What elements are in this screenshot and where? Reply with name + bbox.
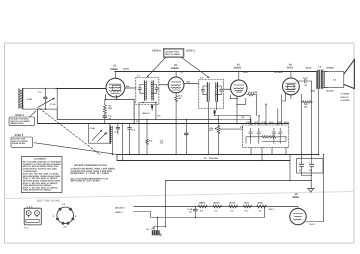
- wire V2 plate to T2: [184, 83, 199, 85]
- couplate internal resistor r8: [262, 136, 269, 138]
- wire AC return long: [165, 180, 311, 182]
- AC plug: [152, 231, 161, 236]
- tube V1 12BE6 converter: [106, 72, 125, 98]
- switch S-1: [152, 227, 155, 229]
- svg-text:GREEN: GREEN: [327, 67, 335, 70]
- svg-text:C-1B: C-1B: [90, 127, 95, 130]
- svg-text:B + 105-125V.: B + 105-125V.: [204, 157, 219, 160]
- wire V4 plate short: [291, 81, 299, 99]
- svg-text:35W4: 35W4: [257, 202, 263, 205]
- wire T2 to V3: [224, 88, 231, 90]
- junction dots couplate inputs on chassis bus: [250, 123, 251, 124]
- wire volume tap to couplate: [218, 119, 251, 121]
- wire T1 bottom internal: [140, 102, 157, 104]
- ground chassis symbol: [307, 189, 314, 193]
- couplate internal capacitor c11: [257, 128, 261, 143]
- coil T2 secondary: [215, 83, 217, 102]
- svg-text:12AV6: 12AV6: [229, 202, 236, 205]
- svg-text:STEP 3: STEP 3: [152, 49, 161, 52]
- alignment instruction box: [22, 157, 63, 193]
- svg-text:50C5: 50C5: [244, 202, 250, 205]
- svg-text:12BA6: 12BA6: [213, 202, 220, 205]
- wire T2 secondary down to volume: [215, 102, 217, 111]
- variable capacitor C-1A arrow: [38, 98, 56, 108]
- svg-text:WITH LINE AT 117V. AC/DC.: WITH LINE AT 117V. AC/DC.: [71, 180, 101, 183]
- svg-text:117 V.: 117 V.: [310, 223, 316, 226]
- tube V5 35W4 rectifier: [290, 207, 306, 225]
- capacitor C-6 screen bypass: [160, 119, 188, 155]
- notes unless otherwise noted: [71, 164, 116, 183]
- pointer line to bus: [34, 143, 117, 155]
- wire heater return: [151, 207, 265, 218]
- svg-text:GANG OPEN.: GANG OPEN.: [12, 142, 26, 145]
- heater resistor 12BA6: [213, 202, 222, 213]
- coil T1 secondary: [151, 81, 153, 100]
- svg-text:BLACK: BLACK: [327, 90, 335, 93]
- capacitor C-20A: [299, 159, 304, 173]
- wire filter caps to bus dots: [302, 155, 312, 159]
- wire osc cathode vertical: [122, 124, 124, 161]
- couplate internal capacitor c13: [278, 128, 282, 143]
- svg-text:A-201: A-201: [27, 98, 34, 101]
- svg-text:BLUE: BLUE: [306, 67, 312, 70]
- capacitor C-3: [115, 123, 120, 134]
- capacitor T2 secondary: [220, 86, 223, 95]
- wire grid bus loop to V1: [57, 88, 106, 90]
- wire T2 primary down: [207, 102, 209, 155]
- IF transformer T2 dashed box: [199, 80, 224, 109]
- capacitor T2 primary: [201, 86, 204, 95]
- wire bus left hook: [116, 155, 118, 161]
- svg-text:50C5: 50C5: [287, 67, 294, 70]
- note box step 4: [9, 117, 35, 126]
- T1 slug screw: [151, 105, 153, 109]
- heater resistor 50C5: [243, 202, 251, 213]
- resistor R-9: [301, 101, 313, 109]
- svg-text:12BA6: 12BA6: [171, 67, 179, 70]
- wire V5 output to filter: [306, 155, 324, 222]
- svg-text:RED: RED: [311, 90, 316, 93]
- wire AVC stub: [57, 119, 218, 121]
- svg-text:1 ▲ 2: 1 ▲ 2: [27, 205, 33, 208]
- IF transformer T1 dashed box: [136, 78, 159, 105]
- volume control R-3: [209, 119, 219, 155]
- voice coil loop: [324, 72, 343, 88]
- variable capacitor C-1B arrow: [90, 127, 103, 140]
- wire AC neutral: [134, 212, 151, 217]
- heater resistor 35W4: [257, 202, 267, 213]
- wire T3 primary red down: [318, 89, 320, 155]
- svg-text:TO RECEIVER.: TO RECEIVER.: [23, 170, 38, 173]
- wire under V1: [105, 95, 134, 124]
- capacitor C-14: [299, 77, 312, 87]
- wire AC bus lower: [117, 160, 290, 162]
- couplate internal resistor r12: [270, 136, 277, 138]
- svg-text:BOTTOM VIEWS: BOTTOM VIEWS: [37, 200, 60, 203]
- pointer to T1 slug: [147, 58, 166, 78]
- couplate internal capacitor c12: [272, 128, 276, 143]
- svg-text:MAX AT 455KC: MAX AT 455KC: [165, 53, 180, 56]
- svg-text:35W4: 35W4: [292, 196, 299, 199]
- wire osc coil to bus: [111, 144, 113, 155]
- wire couplate inputs: [251, 95, 282, 126]
- wire loop bottom to chassis bus: [37, 109, 39, 123]
- output transformer T3: [317, 66, 323, 89]
- svg-text:105-125 V.: 105-125 V.: [115, 206, 125, 209]
- wire V1 plate to T1: [125, 87, 136, 89]
- couplate internal capacitor c10: [249, 128, 253, 143]
- oscillator coil L-2: [104, 126, 112, 144]
- resistor R-4 AVC decoupling: [146, 119, 153, 155]
- heater resistor 12AV6: [229, 202, 238, 213]
- wire couplate outputs: [251, 147, 286, 160]
- wire B+ top bus: [115, 71, 317, 73]
- wire T3 secondary to voice coil: [323, 72, 328, 88]
- couplate PEC dashed box: [242, 125, 288, 147]
- note box step 1-3: [163, 48, 184, 57]
- filter capacitor can C-20: [297, 159, 324, 174]
- dashed gang linkage line: [40, 109, 101, 155]
- wire volume wiper to couplate: [220, 128, 243, 130]
- pointer to T2 slug: [182, 58, 210, 78]
- svg-text:4" SPKR: 4" SPKR: [341, 93, 350, 96]
- svg-text:ALIGNMENT: ALIGNMENT: [34, 158, 47, 161]
- capacitor T1 primary: [138, 85, 141, 94]
- resistor R-5 cathode: [175, 93, 183, 155]
- wire V4 cathode down: [301, 94, 303, 155]
- svg-text:3.2Ω VC: 3.2Ω VC: [341, 96, 349, 99]
- svg-text:USING LOOP.: USING LOOP.: [10, 122, 24, 125]
- svg-text:RESISTORS - K = 1000 , M = 1 M: RESISTORS - K = 1000 , M = 1 MEG.: [71, 172, 110, 175]
- resistor R-1: [103, 100, 112, 116]
- svg-text:121 V.: 121 V.: [269, 208, 275, 211]
- wire V3 cathode loop: [230, 95, 246, 124]
- wire T1 internals: [140, 85, 157, 94]
- note box step 2: [11, 137, 33, 147]
- tube V2 12BA6 IF amp: [168, 71, 184, 93]
- coil T1 primary: [145, 81, 147, 100]
- wire screen line down: [311, 81, 313, 155]
- svg-text:DET.: DET.: [244, 71, 249, 74]
- wire T1 leads down: [139, 103, 156, 155]
- couplate component labels: [246, 121, 289, 124]
- tube V3 12AV6 det-af: [231, 71, 247, 97]
- svg-text:12AV6: 12AV6: [233, 67, 241, 70]
- wire B plus lower bus: [117, 154, 319, 156]
- svg-text:STEP 1: STEP 1: [186, 49, 195, 52]
- variable capacitor C-1C arrow: [98, 132, 107, 141]
- wire AC hot: [134, 206, 298, 208]
- svg-text:455 KC: 455 KC: [143, 112, 151, 115]
- oscillator section box: [89, 124, 110, 144]
- capacitor C-4: [128, 124, 136, 156]
- loop enclosure box: [23, 89, 57, 110]
- loop antenna L1: [19, 89, 23, 109]
- svg-text:12BE6: 12BE6: [199, 202, 206, 205]
- border frame: [5, 43, 355, 243]
- svg-text:12BE6: 12BE6: [110, 68, 118, 71]
- svg-text:STEP 4: STEP 4: [15, 114, 24, 117]
- svg-text:I.F.: I.F.: [181, 71, 184, 74]
- node dots loop: [45, 88, 46, 89]
- svg-text:OUTPUT: OUTPUT: [275, 71, 284, 74]
- pointer line step4 to trimmer: [30, 111, 36, 117]
- capacitor T1 secondary: [155, 85, 158, 94]
- loop base bottom view: [24, 205, 41, 229]
- tube socket bottom view: [53, 203, 77, 228]
- svg-text:UNLESS OTHERWISE NOTED:: UNLESS OTHERWISE NOTED:: [74, 164, 107, 167]
- speaker labels: [341, 93, 350, 103]
- svg-text:TUNE RECEIVER TO SIGNAL.: TUNE RECEIVER TO SIGNAL.: [23, 189, 53, 192]
- heater resistor 12BE6: [198, 202, 207, 213]
- wire V3 detector load: [237, 95, 257, 124]
- couplate internal wires: [246, 137, 287, 144]
- svg-text:R-6 470K: R-6 470K: [249, 91, 258, 94]
- tube V4 50C5 output: [283, 71, 300, 95]
- capacitor C-20B: [309, 159, 314, 173]
- wire output stage stubs: [282, 93, 286, 124]
- wire cap negatives to ground: [302, 172, 312, 189]
- svg-text:C-1A: C-1A: [51, 103, 56, 106]
- wire loop right down: [56, 109, 58, 119]
- wire switch riser: [289, 155, 291, 181]
- wire AC riser: [164, 181, 166, 227]
- coil T2 primary: [207, 83, 209, 102]
- wire T1 to V2: [159, 84, 168, 86]
- svg-text:22K: 22K: [108, 107, 112, 110]
- svg-text:CONV.: CONV.: [123, 67, 130, 70]
- wire chassis bus B-: [38, 123, 289, 125]
- scan crease line: [5, 192, 354, 199]
- capacitor C-1 fixed: [44, 89, 48, 110]
- wire T2 internals: [203, 86, 221, 95]
- svg-text:50/60 ∿: 50/60 ∿: [116, 211, 124, 214]
- speaker cone: [344, 60, 355, 89]
- capacitor C-2: [103, 115, 112, 124]
- wire plug risers: [154, 218, 165, 231]
- svg-text:P-4 500Ω: P-4 500Ω: [341, 99, 350, 102]
- resistor R-6: [247, 91, 258, 96]
- capacitor C-18: [188, 206, 198, 218]
- T2 slug screw: [214, 110, 216, 113]
